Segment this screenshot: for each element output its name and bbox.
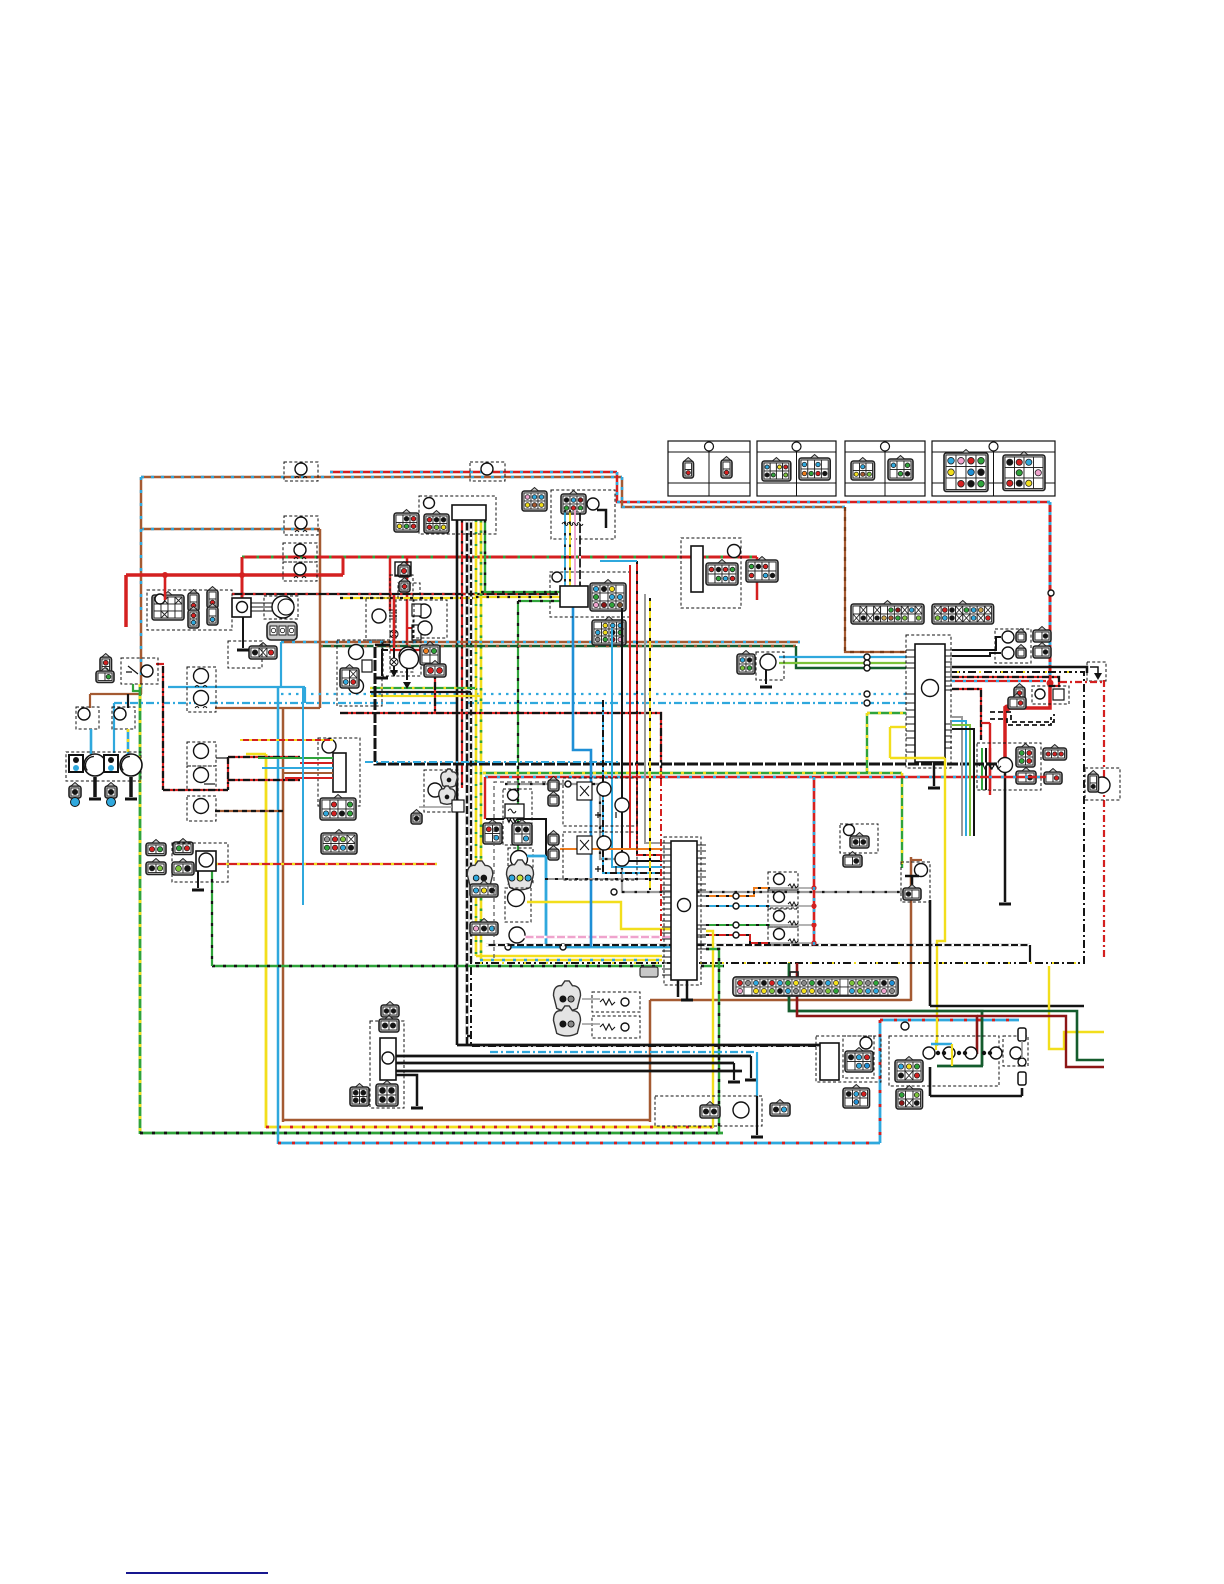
connector sm d [350, 1087, 369, 1106]
wire lgreen bundle r3 [952, 725, 970, 836]
front sub-harness body [691, 546, 703, 592]
wire sensor a [582, 998, 600, 1000]
box inline connector [284, 516, 318, 535]
box front sub-harness [681, 538, 741, 608]
wire green y773 [483, 772, 902, 774]
wire red dashdot right border [1103, 680, 1105, 958]
wire brown drop hl1 [89, 694, 91, 708]
rear lamp circle [923, 1047, 935, 1059]
connector fuses b [1043, 748, 1067, 760]
fuse b [399, 581, 410, 592]
ignition sw body [232, 598, 251, 617]
wire trunk black/white [470, 520, 472, 963]
wire yellow inside [935, 1040, 937, 1050]
wire green to meter [481, 591, 560, 593]
injector circle 1 [774, 874, 785, 885]
wire injector lead 4 [770, 942, 814, 944]
wire red rail injectors [813, 777, 816, 945]
wire lblue bottom long horiz [278, 1142, 880, 1145]
wire red dashdot x661 [660, 779, 662, 944]
wire black to coil circle2 [952, 653, 1001, 656]
wire red/yellow y740 [240, 739, 333, 741]
wire green x719 [706, 949, 719, 1134]
box meter [419, 496, 496, 534]
connector inline brown [640, 967, 658, 977]
legend2 glyph b [799, 458, 830, 480]
wire red y790 [163, 789, 228, 791]
wire injector3 green [706, 924, 770, 926]
wire black y1006 [930, 1005, 1084, 1008]
box relay b [187, 742, 216, 766]
wire trunk yellow2 [480, 520, 483, 960]
wire ECU1 stub [933, 762, 935, 786]
wire injector lead 2 [770, 905, 814, 907]
wire brown headlight feed [90, 693, 142, 695]
wire black spark2 [406, 665, 408, 680]
wire lblue dash-dot long [114, 702, 906, 704]
wire yellow y696 [370, 695, 481, 697]
legend2 glyph a [762, 461, 791, 481]
box handlebar sw left [121, 658, 158, 684]
wire red drop x485 [484, 777, 486, 819]
box relay c [187, 766, 216, 790]
connector sm c [376, 1084, 398, 1106]
wire yellow sensor b [527, 902, 673, 929]
connector 3p a [470, 884, 498, 897]
wire green y966 stub [701, 965, 724, 967]
connector ts a [146, 843, 166, 856]
legend3 glyph a [851, 461, 875, 480]
connector 3p b [470, 922, 498, 935]
legend1 glyph b [721, 460, 732, 478]
connector sm a [381, 1005, 399, 1017]
connector strip B [932, 604, 994, 624]
wire brown vertical bottom center [649, 1000, 652, 1122]
box inline connector [283, 543, 317, 562]
connector fsh b [746, 560, 778, 582]
wire lblue x281 drop [280, 642, 282, 688]
wire yellow y758 [890, 757, 945, 759]
ts body [196, 851, 216, 871]
starter relay body [1053, 689, 1064, 700]
box license lamp [1003, 1036, 1028, 1066]
wire green y966 long [212, 965, 662, 967]
wire yellow y598 [340, 597, 476, 599]
box sensor ww b [592, 1016, 640, 1038]
connector right a [1033, 630, 1051, 642]
connector sm b [379, 1019, 399, 1032]
wire red horiz to x435 [390, 649, 435, 651]
sensor circle b [508, 890, 525, 907]
wire red to starter relay [1005, 681, 1050, 758]
connector rect a [320, 798, 356, 820]
wire black drop d [579, 510, 581, 586]
sensor circle a [511, 851, 528, 868]
connector hl gnd a [69, 786, 81, 798]
relay body [380, 1038, 396, 1080]
connector battery b [1008, 697, 1026, 709]
wire lblue inside [931, 1043, 952, 1045]
wire red bus step right [617, 472, 1050, 502]
wire lblue dashdot y1052 [490, 1051, 757, 1053]
box relay col [390, 575, 413, 672]
wire black to coil circle1 [952, 637, 1001, 650]
wire black y1045 [457, 1044, 820, 1047]
box sensor r1 [840, 824, 878, 853]
wire yellow bottom horiz [266, 1126, 713, 1129]
connector br [845, 1051, 873, 1072]
wire black y692 [370, 691, 471, 693]
wire lblue dd to ECU2 [603, 700, 662, 873]
wire injector2 lblue [706, 905, 770, 907]
wire lblue bundle r2 [952, 721, 966, 836]
frame B yellow ticks bottom [480, 962, 1080, 964]
connector hl gnd b [105, 786, 117, 798]
wire black y1096 [930, 1095, 1022, 1098]
box hl sw1 [76, 707, 99, 729]
connector ts c [146, 862, 166, 875]
wire lblue right riser [879, 1020, 882, 1143]
wire red rect feed2 [285, 777, 333, 779]
connector orange/green [420, 645, 440, 665]
wire ECU2 stub1 [677, 980, 680, 997]
box injector 4 [768, 927, 798, 945]
box center cluster edge [494, 782, 560, 958]
wire brown horiz to right [650, 999, 911, 1002]
wire darkred to right edge [977, 1016, 1104, 1067]
coil1 circle [372, 609, 386, 623]
box inline connector top [470, 462, 505, 481]
box fuse cluster [977, 743, 1041, 790]
sensor circle c [509, 927, 525, 943]
wire black bundle r4 [952, 729, 974, 836]
sub meter body [560, 586, 588, 607]
wire green dashdot center drop [517, 601, 519, 850]
wire lblue/yellow hl2 [127, 729, 130, 754]
connector rect b [321, 833, 357, 854]
wire black bus top hook [375, 644, 390, 647]
wire red top bus [330, 471, 617, 474]
wire red thick left drop [124, 575, 128, 627]
meter body [452, 505, 486, 520]
wire injector lead 3 [770, 924, 814, 926]
wire green x212 [211, 857, 213, 966]
connector 6p b [561, 494, 586, 514]
wire black hl1 gnd [93, 777, 97, 797]
connector shield b [507, 860, 534, 890]
ECU2 body [671, 841, 697, 980]
ECU2 circle [678, 899, 691, 912]
connector mid [340, 668, 359, 688]
box coil1 [366, 598, 396, 640]
wire lblue short drop [304, 687, 306, 703]
connector small c [411, 813, 422, 824]
wire yellow y956 [476, 955, 662, 958]
wire brown/blue second bus [141, 528, 320, 531]
wire red main drop right [1049, 502, 1052, 684]
box center switch [503, 789, 532, 845]
wire pink drop c [574, 510, 576, 586]
box clutch diode [424, 770, 458, 812]
footer rule [126, 1572, 268, 1574]
connector fsh a [706, 563, 738, 585]
diode body [452, 800, 464, 812]
wire red drop to ignition switch [241, 557, 244, 598]
wire yellow/lblue y960 [480, 959, 662, 962]
wire brown hook r [911, 859, 922, 861]
connector ts d [172, 862, 194, 875]
wire yellow long right drop [937, 758, 945, 1046]
box speed sensor [655, 1096, 762, 1126]
wire black to resistor [486, 818, 504, 820]
box rear lights [889, 1036, 999, 1086]
wire green rect feed [258, 757, 333, 759]
wire lblue drop a [564, 510, 566, 586]
wire lblue x546 [545, 856, 548, 947]
wire black spark1 [393, 622, 395, 676]
wire black y1063 [395, 1062, 734, 1065]
wire black resistor to sensor [517, 819, 546, 856]
wire red y681 [952, 680, 1046, 682]
wire brown bus step right [622, 477, 845, 507]
wire brown vertical right [910, 857, 913, 1001]
wire green bottom long horiz [140, 1132, 723, 1135]
wire red in fusebox [989, 748, 991, 790]
connector strip main harness (top layer) [733, 977, 898, 996]
wire yellow x650 [649, 598, 651, 890]
wire green x867 [866, 713, 868, 773]
box fuse block [147, 590, 232, 630]
wire yellow to meter [476, 596, 560, 598]
injector circle 2 [774, 892, 785, 903]
wire yellow left vertical [265, 754, 268, 1128]
box horn relays b [563, 832, 637, 880]
wire green x902 drop [901, 773, 903, 868]
wire brown bottom horiz [283, 1119, 650, 1122]
box coil2 [383, 642, 421, 676]
wire lblue dotted long [281, 693, 906, 695]
wire trunk black2 [466, 520, 469, 1045]
wire brown/blue top bus [141, 476, 622, 479]
wire green into ECU1 [867, 712, 906, 714]
ignition sw circle [272, 596, 294, 618]
wire black y667 to box [952, 667, 1087, 673]
wire black/red y594 [232, 593, 558, 595]
wire green y688 [370, 687, 476, 689]
wire brown/black y811 [215, 810, 283, 812]
connector 4p sensor [737, 654, 755, 674]
wire darkred loop [797, 963, 977, 1054]
wire brown horiz link [215, 707, 320, 709]
sensor glyph a [554, 981, 581, 1011]
junction lblue corner [901, 1022, 909, 1030]
junction red drop [1048, 590, 1054, 596]
wire red y757 [228, 756, 300, 758]
wire red y689 x981 [952, 689, 981, 740]
sensor circle [760, 654, 776, 670]
wire red x228 [227, 757, 229, 790]
wire yellow hook [246, 753, 266, 755]
wire red coil2 feed [406, 557, 409, 647]
legend4 glyph b [1003, 455, 1045, 491]
wire injector lead 1 [770, 887, 814, 889]
wire gray long [505, 784, 906, 892]
wire lblue rect feed [262, 767, 333, 769]
wire blue jog long [573, 607, 591, 947]
injector circle 3 [774, 911, 785, 922]
wire red y864 tail feed [215, 863, 437, 865]
wire red dashdot left x163 [162, 666, 164, 790]
legend4 glyph a [944, 453, 988, 492]
connector shield a [467, 861, 492, 889]
wire green horiz to meter [518, 600, 560, 602]
legend box 4 [932, 441, 1055, 496]
ECU1 body [915, 644, 945, 762]
wire orange y849 [560, 848, 662, 850]
legend1 glyph a [683, 461, 694, 478]
wire red dashdot x435 [434, 650, 436, 713]
wire lblue top of box [880, 1019, 1019, 1022]
box rectifier [318, 738, 360, 806]
box top right connector [551, 490, 615, 539]
wire injector4 red [706, 935, 770, 943]
wire sensor b [582, 1023, 600, 1025]
box turn signal unit [172, 843, 228, 882]
box injector 2 [768, 890, 798, 908]
fuse a [398, 565, 410, 577]
wire yellow bottom right [1049, 966, 1104, 1049]
wire trunk yellow1 [475, 520, 478, 956]
wire gray to ECU2 [645, 594, 662, 843]
connector sw b [96, 671, 114, 683]
box ECU1 outline [906, 635, 951, 768]
box horn relays a [563, 778, 637, 826]
box relays mid [337, 640, 382, 706]
wire black x930 lower [929, 1067, 932, 1096]
connector rear a [895, 1060, 923, 1082]
wire lblue hl1 [90, 729, 93, 754]
connector r1b [843, 855, 862, 867]
wire black to ECU2 [622, 608, 662, 861]
connector br2 [843, 1088, 870, 1108]
coil2 circle [399, 647, 417, 665]
connector fuses c [1016, 771, 1036, 784]
wire red y677 [952, 677, 1059, 686]
box right rear connector [1085, 768, 1120, 800]
wire lblue into ECU [779, 656, 906, 658]
starter relay circle [998, 758, 1013, 773]
wire lblue drop x757 [756, 1052, 758, 1096]
wire red coil1 feed [389, 557, 392, 611]
wire black relay gnd [396, 1075, 417, 1106]
connector battery [1014, 687, 1025, 707]
wire black hook [597, 510, 606, 528]
wire brown/lblue y642 [281, 641, 800, 643]
wire lblue sensor a [527, 855, 546, 858]
wire red left col [393, 595, 396, 648]
connector meter a [424, 514, 449, 533]
box starter motor relay [370, 1021, 404, 1108]
wire red y780 [228, 779, 300, 781]
wire green/yellow long left vertical [139, 684, 142, 1134]
wire gray bundle r1 [952, 717, 962, 836]
wire red dashdot top link [1060, 681, 1104, 683]
wire red drop x757 [756, 557, 759, 600]
wire yellow drop b [569, 510, 571, 586]
wire darkgreen into ECU [796, 646, 906, 668]
wire red link [342, 557, 345, 575]
wire ECU2 stub2 [686, 980, 689, 999]
wire darkgreen bottom [937, 1065, 983, 1068]
box rear conn [843, 1036, 874, 1078]
wire gray y879 [545, 878, 662, 880]
box flasher a [187, 667, 216, 712]
rear lamp circle [990, 1047, 1002, 1059]
box ECU2 outline [664, 837, 701, 985]
wire darkgreen to right edge [983, 1011, 1104, 1060]
connector right b [1033, 646, 1051, 658]
wire black x930 [929, 900, 932, 1006]
connector 6p top [522, 491, 547, 511]
wire yellow x890 [889, 727, 891, 758]
legend box 3 [845, 441, 925, 496]
box hl sw2 [112, 707, 135, 729]
wire red drop to fusebox [164, 575, 167, 600]
wire black hl2 gnd [129, 777, 133, 797]
wire darkgreen y646 [320, 645, 796, 647]
legend3 glyph b [888, 459, 913, 480]
connector 12p b [592, 620, 626, 645]
wire trunk green [484, 520, 486, 592]
wire black drop hl2 [127, 694, 129, 708]
wire lblue horiz left [168, 686, 305, 688]
legend box 2 [757, 441, 836, 496]
headlamp2 [120, 754, 142, 776]
wire yellow x713 [706, 931, 713, 1128]
rear lamp circle [1010, 1047, 1022, 1059]
wire lblue drop to pilot [113, 703, 115, 753]
wire lblue y947 [505, 946, 673, 949]
wire light blue left vertical [277, 688, 280, 1144]
connector meter b [394, 513, 419, 532]
connector fuses d [1044, 772, 1062, 784]
wire red bus y777 [485, 776, 1046, 779]
wire brown drop to ECU [845, 507, 906, 652]
connector ts b [173, 842, 193, 855]
box inline connector [283, 562, 317, 581]
wire black/white y945 [486, 944, 1030, 946]
box injector 3 [768, 909, 798, 927]
box sensor [756, 652, 784, 680]
connector red pair [424, 664, 446, 677]
rear lamp circle [943, 1047, 955, 1059]
wire injector1 orange [706, 888, 770, 896]
connector small a [441, 769, 458, 787]
wire black dashed relay loop a [990, 712, 1054, 722]
switch body [505, 804, 524, 818]
wire trunk black1 [456, 520, 459, 1045]
box sub meter [550, 572, 630, 617]
connector strip main harness [733, 977, 898, 996]
wire red rect feed [300, 762, 333, 764]
wire red thick y575 [126, 573, 343, 577]
legend box 1 [668, 441, 750, 496]
wire black y1056 [395, 1055, 751, 1058]
box injector 1 [768, 872, 798, 890]
wire lblue dd y762 [365, 761, 618, 763]
wire lblue to ECU2 [612, 628, 662, 867]
connector rear b [896, 1089, 923, 1109]
